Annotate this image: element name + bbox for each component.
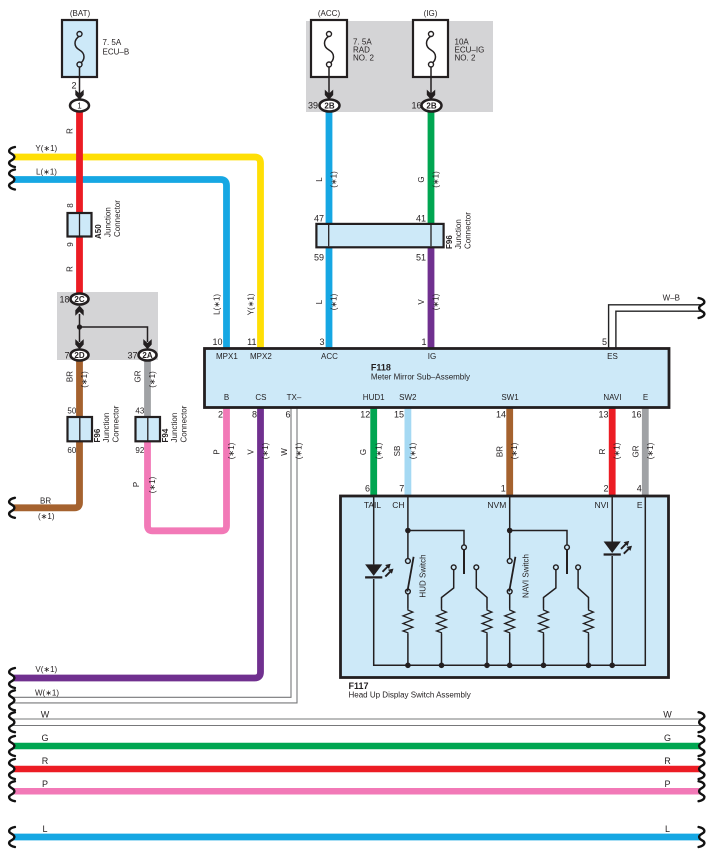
svg-text:GR: GR bbox=[631, 445, 640, 457]
junction connector F96 (long, ACC/IG) bbox=[314, 212, 473, 263]
svg-text:(∗1): (∗1) bbox=[330, 171, 339, 188]
svg-text:(∗1): (∗1) bbox=[646, 442, 655, 459]
svg-text:(∗1): (∗1) bbox=[38, 512, 55, 521]
svg-text:W: W bbox=[280, 448, 289, 456]
svg-text:10: 10 bbox=[212, 337, 222, 347]
svg-text:(∗1): (∗1) bbox=[148, 476, 157, 493]
svg-text:E: E bbox=[637, 500, 643, 510]
svg-text:6: 6 bbox=[365, 484, 370, 494]
svg-text:BR: BR bbox=[496, 446, 505, 457]
svg-text:37: 37 bbox=[127, 351, 137, 361]
wire W full width bbox=[14, 718, 701, 720]
node 2C (oval connector) bbox=[71, 294, 89, 305]
svg-text:G: G bbox=[417, 176, 426, 182]
svg-text:P: P bbox=[213, 449, 222, 454]
wire contact right to resistor bbox=[476, 570, 487, 609]
wire G green (HUD1 to F117 TAIL) bbox=[370, 407, 377, 496]
svg-text:ECU–B: ECU–B bbox=[103, 48, 130, 57]
break (V wire) bbox=[9, 668, 15, 688]
svg-text:R: R bbox=[42, 756, 49, 766]
wire BR brown (2D oval through F96 down then left to break) bbox=[14, 360, 80, 508]
wire L blue (ACC 2B oval down to ACC pin of F118) bbox=[326, 111, 333, 350]
svg-text:SB: SB bbox=[393, 446, 402, 457]
svg-text:1: 1 bbox=[421, 337, 426, 347]
svg-text:2D: 2D bbox=[74, 351, 84, 360]
node junction dot NVM bbox=[507, 528, 513, 534]
switch blade NAVI bbox=[509, 557, 515, 592]
svg-text:47: 47 bbox=[314, 214, 324, 224]
svg-text:4: 4 bbox=[637, 484, 642, 494]
svg-text:W: W bbox=[663, 710, 672, 720]
svg-text:2B: 2B bbox=[324, 102, 334, 111]
svg-text:TX–: TX– bbox=[287, 393, 302, 402]
svg-text:5: 5 bbox=[602, 337, 607, 347]
switch NAVI secondary blade bbox=[566, 550, 568, 574]
wire TAIL LED to bus bbox=[374, 579, 408, 665]
svg-text:16: 16 bbox=[411, 101, 421, 111]
svg-text:41: 41 bbox=[416, 214, 426, 224]
svg-text:(∗1): (∗1) bbox=[432, 293, 441, 310]
svg-text:L: L bbox=[315, 299, 324, 304]
arrow into oval 2B (IG) bbox=[427, 90, 435, 100]
junction connector A50 bbox=[66, 200, 122, 247]
svg-text:14: 14 bbox=[496, 410, 506, 420]
svg-text:Junction: Junction bbox=[104, 207, 113, 237]
break (BR wire) bbox=[9, 498, 15, 518]
wire P full width bbox=[14, 788, 701, 795]
svg-text:W: W bbox=[41, 710, 50, 720]
svg-text:CS: CS bbox=[255, 393, 266, 402]
svg-text:39: 39 bbox=[308, 101, 318, 111]
svg-text:2: 2 bbox=[71, 81, 76, 91]
wire V purple (CS pin down then left to break) bbox=[14, 407, 261, 678]
junction connector F94 (gray/pink wire) bbox=[135, 405, 188, 455]
svg-text:(∗1): (∗1) bbox=[148, 371, 157, 388]
break (Y wire) bbox=[9, 147, 15, 167]
svg-text:7: 7 bbox=[64, 351, 69, 361]
component F117 Head Up Display Switch Assembly bbox=[341, 496, 669, 678]
resistor (HUD left) bbox=[437, 609, 447, 635]
svg-text:G: G bbox=[664, 733, 671, 743]
svg-text:3: 3 bbox=[319, 337, 324, 347]
resistor (NVM branch) bbox=[505, 609, 515, 635]
wire Y(*1) yellow (left break to MPX2) bbox=[14, 157, 261, 349]
wire GR gray (E to F117 E) bbox=[642, 407, 649, 496]
svg-text:F94: F94 bbox=[161, 428, 170, 442]
wire switch to resistor (NVM) bbox=[509, 594, 511, 609]
svg-text:Connector: Connector bbox=[113, 200, 122, 237]
switch HUD secondary contacts bbox=[451, 565, 456, 570]
wire W white outlined (TX- pin down then left to break) bbox=[14, 407, 292, 697]
svg-text:F118: F118 bbox=[371, 362, 391, 372]
svg-text:50: 50 bbox=[67, 406, 76, 415]
switch NAVI main (pole contacts) bbox=[507, 559, 512, 564]
break (L wire) bbox=[9, 170, 15, 190]
svg-text:(∗1): (∗1) bbox=[432, 171, 441, 188]
svg-text:W–B: W–B bbox=[663, 293, 680, 302]
svg-text:MPX2: MPX2 bbox=[250, 352, 272, 361]
svg-text:MPX1: MPX1 bbox=[216, 352, 238, 361]
break (W-B wire) bbox=[699, 298, 705, 318]
arrow into oval 1 bbox=[75, 90, 83, 100]
resistor (NAVI left) bbox=[539, 609, 549, 635]
switch NAVI secondary contacts bbox=[554, 565, 559, 570]
svg-text:Junction: Junction bbox=[102, 413, 111, 443]
node 1 (oval connector) bbox=[70, 100, 89, 112]
svg-text:NVM: NVM bbox=[487, 500, 506, 510]
wire SB light blue (SW2 to F117 CH) bbox=[404, 407, 411, 496]
svg-text:13: 13 bbox=[598, 410, 608, 420]
wire NVM internal down to junction bbox=[509, 497, 511, 561]
wire GR gray (2A oval down into F94) bbox=[144, 360, 151, 425]
resistor (NAVI right) bbox=[584, 609, 594, 635]
svg-text:P: P bbox=[42, 779, 48, 789]
svg-text:11: 11 bbox=[247, 337, 256, 347]
svg-text:7: 7 bbox=[399, 484, 404, 494]
wire (junction down to 2D arrow) bbox=[79, 327, 81, 342]
svg-text:1: 1 bbox=[77, 102, 82, 111]
switch HUD main (pole contacts) bbox=[406, 559, 411, 564]
svg-text:P: P bbox=[132, 482, 141, 487]
wire W-B outlined (ES pin up then right to break) bbox=[609, 305, 701, 349]
svg-text:2B: 2B bbox=[426, 102, 436, 111]
svg-text:6: 6 bbox=[285, 410, 290, 420]
svg-text:F96: F96 bbox=[445, 235, 454, 249]
wire BR brown (SW1 to F117 NVM) bbox=[506, 407, 513, 496]
svg-text:(∗1): (∗1) bbox=[330, 293, 339, 310]
switch NAVI secondary pole circle bbox=[565, 545, 570, 550]
wire contact right to resistor (NAVI) bbox=[578, 570, 588, 609]
svg-text:G: G bbox=[359, 449, 368, 455]
svg-text:CH: CH bbox=[392, 500, 404, 510]
component F118 Meter Mirror Sub-Assembly bbox=[205, 349, 670, 408]
wire P pink (F94 down, right, up to B pin of F118) bbox=[148, 407, 227, 531]
switch HUD secondary blade bbox=[463, 550, 465, 574]
svg-text:BR: BR bbox=[66, 371, 75, 382]
wire R (BAT red vertical, oval 1 to 2C) bbox=[76, 111, 83, 295]
node junction dot CH bbox=[405, 528, 411, 534]
arrow into 2D bbox=[75, 339, 83, 349]
arrow into 2A bbox=[143, 339, 151, 349]
svg-text:IG: IG bbox=[428, 352, 436, 361]
wire resistor to bus (CH) bbox=[407, 634, 409, 665]
svg-text:W(∗1): W(∗1) bbox=[35, 688, 59, 697]
svg-text:Connector: Connector bbox=[180, 405, 189, 442]
svg-text:2A: 2A bbox=[142, 351, 152, 360]
svg-text:(∗1): (∗1) bbox=[261, 442, 270, 459]
svg-text:(∗1): (∗1) bbox=[613, 442, 622, 459]
svg-text:8: 8 bbox=[252, 410, 257, 420]
svg-text:R: R bbox=[598, 448, 607, 454]
junction connector F96 (brown wire) bbox=[67, 405, 120, 455]
svg-text:(∗1): (∗1) bbox=[227, 442, 236, 459]
svg-text:60: 60 bbox=[67, 446, 76, 455]
svg-text:16: 16 bbox=[631, 410, 641, 420]
svg-text:A50: A50 bbox=[94, 224, 103, 239]
svg-text:92: 92 bbox=[135, 446, 144, 455]
svg-text:9: 9 bbox=[66, 242, 75, 247]
svg-text:(IG): (IG) bbox=[424, 9, 438, 18]
fuse (BAT) 7.5A ECU-B bbox=[62, 9, 129, 94]
svg-text:Junction: Junction bbox=[454, 219, 463, 249]
svg-text:43: 43 bbox=[135, 406, 144, 415]
svg-text:(∗1): (∗1) bbox=[80, 371, 89, 388]
wire TAIL internal bbox=[373, 497, 375, 564]
svg-text:(∗1): (∗1) bbox=[295, 442, 304, 459]
svg-text:8: 8 bbox=[66, 203, 75, 208]
svg-text:(ACC): (ACC) bbox=[318, 9, 341, 18]
svg-text:GR: GR bbox=[134, 370, 143, 382]
svg-text:NAVI Switch: NAVI Switch bbox=[522, 554, 531, 598]
resistor (CH branch) bbox=[403, 609, 413, 635]
svg-text:1: 1 bbox=[501, 484, 506, 494]
svg-text:V: V bbox=[417, 299, 426, 305]
svg-text:Connector: Connector bbox=[464, 212, 473, 249]
svg-text:E: E bbox=[643, 393, 648, 402]
node 2B (IG oval connector) bbox=[422, 100, 442, 112]
arrow into oval 2B (ACC) bbox=[325, 90, 333, 100]
svg-text:(BAT): (BAT) bbox=[70, 9, 91, 18]
svg-text:SW2: SW2 bbox=[399, 393, 417, 402]
svg-text:L: L bbox=[315, 177, 324, 182]
LED (TAIL illumination) bbox=[365, 564, 393, 578]
svg-text:V(∗1): V(∗1) bbox=[35, 665, 57, 674]
svg-text:HUD Switch: HUD Switch bbox=[419, 554, 428, 597]
node junction dot bbox=[77, 324, 82, 329]
node dots on bus bbox=[405, 663, 411, 669]
svg-text:(∗1): (∗1) bbox=[409, 442, 418, 459]
node 2D (oval connector) bbox=[71, 350, 89, 361]
svg-text:L(∗1): L(∗1) bbox=[36, 167, 57, 176]
break (W(*1) wire) bbox=[9, 690, 15, 710]
svg-text:TAIL: TAIL bbox=[364, 500, 382, 510]
wire contact left to resistor bbox=[442, 570, 454, 609]
wire V purple (F96 junction to IG pin of F118) bbox=[428, 232, 435, 349]
svg-text:HUD1: HUD1 bbox=[363, 393, 385, 402]
svg-text:P: P bbox=[664, 779, 670, 789]
wire (internal link 2C to junction) bbox=[79, 314, 81, 327]
svg-text:51: 51 bbox=[416, 253, 426, 263]
svg-text:2: 2 bbox=[218, 410, 223, 420]
svg-text:2C: 2C bbox=[74, 295, 84, 304]
wire NVI LED to bus bbox=[611, 556, 613, 665]
svg-text:F117: F117 bbox=[349, 681, 369, 691]
svg-text:59: 59 bbox=[314, 253, 324, 263]
svg-text:NAVI: NAVI bbox=[603, 393, 621, 402]
svg-text:F96: F96 bbox=[93, 428, 102, 442]
svg-text:2: 2 bbox=[603, 484, 608, 494]
resistor (HUD right) bbox=[482, 609, 492, 635]
svg-text:SW1: SW1 bbox=[501, 393, 519, 402]
svg-text:(∗1): (∗1) bbox=[375, 442, 384, 459]
fuse (ACC) 7.5A RAD NO.2 bbox=[311, 9, 374, 94]
wire R full width bbox=[14, 766, 701, 773]
svg-text:G: G bbox=[41, 733, 48, 743]
svg-text:Meter Mirror Sub–Assembly: Meter Mirror Sub–Assembly bbox=[371, 372, 470, 381]
switch blade HUD bbox=[407, 557, 413, 592]
svg-text:15: 15 bbox=[394, 410, 404, 420]
svg-text:V: V bbox=[247, 449, 256, 455]
arrow up into 2C bbox=[75, 306, 83, 316]
svg-text:L: L bbox=[665, 824, 670, 834]
svg-text:R: R bbox=[664, 756, 671, 766]
switch HUD secondary pole circle bbox=[462, 545, 467, 550]
wire NVM junction to NAVI second pole bbox=[510, 531, 567, 546]
svg-text:L: L bbox=[42, 824, 47, 834]
svg-text:7. 5A: 7. 5A bbox=[103, 38, 122, 47]
svg-text:BR: BR bbox=[40, 497, 51, 506]
wire G green (IG 2B oval down into F96 junction) bbox=[428, 111, 435, 241]
svg-text:ES: ES bbox=[607, 352, 618, 361]
wire G full width bbox=[14, 743, 701, 750]
svg-text:R: R bbox=[66, 266, 75, 272]
svg-text:B: B bbox=[224, 393, 229, 402]
wire NVI internal bbox=[611, 497, 613, 542]
svg-text:NVI: NVI bbox=[595, 500, 609, 510]
wire (junction right and down to 2A arrow) bbox=[80, 327, 148, 342]
svg-text:(∗1): (∗1) bbox=[510, 442, 519, 459]
wire L(*1) blue (left break to MPX1) bbox=[14, 180, 227, 350]
wire CH internal down to junction bbox=[407, 497, 409, 561]
bus ground line in F117 bbox=[374, 664, 646, 666]
svg-text:Y(∗1): Y(∗1) bbox=[247, 293, 256, 315]
svg-text:NO. 2: NO. 2 bbox=[455, 54, 476, 63]
wire switch to resistor (CH) bbox=[407, 594, 409, 609]
svg-text:12: 12 bbox=[360, 410, 370, 420]
svg-text:Head Up Display Switch Assembl: Head Up Display Switch Assembly bbox=[349, 691, 471, 700]
svg-text:L(∗1): L(∗1) bbox=[213, 294, 222, 315]
fuse (IG) 10A ECU-IG NO.2 bbox=[413, 9, 484, 94]
svg-text:Junction: Junction bbox=[170, 413, 179, 443]
svg-text:ACC: ACC bbox=[321, 352, 338, 361]
svg-text:18: 18 bbox=[59, 295, 69, 305]
node 2B (ACC oval connector) bbox=[320, 100, 340, 112]
gray shield box (connector 2C/2D/2A block) bbox=[57, 292, 158, 360]
node 2A (oval connector) bbox=[139, 350, 157, 361]
svg-text:Y(∗1): Y(∗1) bbox=[35, 144, 57, 153]
wire E internal down to bus bbox=[612, 497, 645, 665]
svg-text:NO. 2: NO. 2 bbox=[353, 54, 374, 63]
gray shield box (ACC/IG fuse block) bbox=[306, 21, 493, 112]
LED (NVI illumination) bbox=[604, 541, 632, 555]
wire L full width bbox=[14, 834, 701, 841]
svg-text:R: R bbox=[66, 128, 75, 134]
svg-text:Connector: Connector bbox=[112, 405, 121, 442]
wire contact left to resistor (NAVI) bbox=[544, 570, 556, 609]
wire CH junction to HUD second pole bbox=[408, 531, 464, 546]
wire R red (NAVI to F117 NVI) bbox=[609, 407, 616, 496]
